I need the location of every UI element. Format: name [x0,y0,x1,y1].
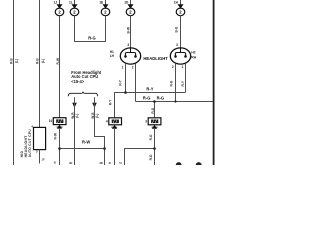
svg-text:3: 3 [145,119,147,123]
connector terminal T4 stub [130,0,132,5]
fuse B box [148,118,161,125]
junction dot R-Y / H1 pin1 [124,91,127,94]
svg-text:3I: 3I [54,160,57,164]
svg-text:RH: RH [191,55,196,59]
svg-text:R-G: R-G [170,80,174,86]
svg-text:(L): (L) [15,59,19,63]
connector terminal T3 circle 2 [101,8,110,16]
wire U-loop from T2 to T3 [75,15,106,41]
R-W bus horizontal [60,148,105,150]
junction dot R-G leg [153,100,156,103]
connector terminal T5 stub [180,0,182,5]
svg-text:R-B: R-B [36,58,40,64]
connector terminal T2 stub [74,0,76,5]
connector terminal T3 triangle [103,4,109,8]
wire below CPU box [39,150,41,164]
connector terminal T5 circle 2 [176,8,185,16]
svg-text:R-G: R-G [149,134,153,140]
svg-text:R-G: R-G [88,35,96,40]
svg-text:1D: 1D [124,0,129,4]
connector terminal T3 stub [105,0,107,5]
wire H2 pin2 down [175,64,177,102]
wire W9 brace right branch with jog [95,97,105,165]
bottom edge connector arc left [176,162,182,165]
connector terminal T1 stub [59,0,61,5]
R-G net horizontal to right border [136,101,214,103]
wire W8 brace left branch down [74,97,76,165]
svg-text:1: 1 [122,65,124,69]
branch from fuse B wire to left [125,149,155,166]
connector terminal T1 circle 2 [55,8,64,16]
svg-text:1H: 1H [174,0,179,4]
svg-text:B-G: B-G [175,26,179,32]
headlight H1 filament staple [125,53,135,57]
svg-text:R-Y: R-Y [146,87,153,92]
R-Y net horizontal with left leg to fuse A [115,93,186,118]
headlight H2 filament dot left [174,55,177,58]
svg-text:2: 2 [132,65,134,69]
headlight H2 filament dot right [184,55,187,58]
svg-text:R-Y: R-Y [181,80,185,86]
connector terminal T5 triangle [178,4,184,8]
svg-text:10: 10 [49,119,53,123]
svg-text:5I: 5I [119,161,122,165]
connector terminal T2 circle 2 [70,8,79,16]
wire H1 pin2 down [135,64,137,102]
wire W7 from T5 to headlight H2 [180,15,182,52]
wire below fuse A [114,128,116,165]
wire H2 pin1 down [185,64,187,93]
brace under From text [68,92,97,97]
svg-text:R-G: R-G [143,96,151,101]
svg-text:3: 3 [127,43,129,47]
svg-text:R-W: R-W [53,133,57,139]
svg-text:1E: 1E [99,0,103,4]
wire below fuse B [154,128,156,165]
connector terminal T4 triangle [128,4,134,8]
svg-text:4: 4 [106,119,108,123]
svg-text:(L): (L) [95,114,99,118]
junction dot R-G / H2 pin1 [174,100,176,102]
svg-text:R-Y: R-Y [109,99,113,105]
svg-text:HEADLIGHT: HEADLIGHT [143,56,168,61]
wire H1 pin1 down [125,64,127,93]
junction dot R-W right [103,147,106,150]
svg-text:3E: 3E [69,161,73,165]
svg-text:R-B: R-B [10,58,14,64]
R-G leg down to fuse B [154,102,156,118]
headlight H1 center feed [130,48,132,53]
headlight H2 bulb ellipse [170,48,190,64]
arrow from CPU left branch [72,103,77,108]
svg-text:(L): (L) [41,59,45,63]
svg-text:1F: 1F [42,158,46,162]
svg-text:R-W: R-W [56,58,60,64]
headlight H1 bulb ellipse [120,48,140,64]
bottom edge connector arc right [196,162,202,165]
svg-text:R-G: R-G [157,96,165,101]
junction dot R-W left [58,147,61,150]
wire W3 from T1 down to fuse 10 [59,15,61,118]
arrow from CPU right branch [92,103,97,108]
CPU box HID headlight auto cut [34,127,46,149]
svg-text:(L): (L) [75,114,79,118]
svg-text:AUTO CUT CPU: AUTO CUT CPU [28,129,32,158]
wire W6 from T4 to headlight H1 [130,15,132,52]
headlight H1 filament dot right [134,55,137,58]
headlight H2 filament staple [175,53,185,57]
svg-text:R-G: R-G [151,107,155,113]
fuse A arrow [112,125,117,129]
svg-text:B-W: B-W [126,27,130,33]
fuse B arrow [152,125,157,129]
svg-text:2: 2 [172,65,174,69]
junction dot branch [153,147,156,150]
fuse A box [109,118,122,125]
right border bus [213,0,215,165]
connector terminal T4 circle 2 [126,8,135,16]
wire W1 left vertical R-B [13,0,15,165]
svg-text:LH: LH [110,54,115,58]
svg-text:H2: H2 [191,51,195,55]
wire below fuse 10 [59,128,61,165]
fuse 10 box [53,118,66,125]
connector terminal T1 triangle [57,4,63,8]
svg-text:3I: 3I [109,161,112,165]
svg-text:R-Y: R-Y [119,79,123,85]
svg-text:3: 3 [176,43,178,47]
headlight H1 filament dot left [124,55,127,58]
connector terminal T2 triangle [72,4,78,8]
fuse 10 arrow [57,125,62,129]
svg-text:R-G: R-G [149,154,153,160]
svg-text:R-W: R-W [82,139,90,144]
wire W2 vertical to CPU box [39,0,41,127]
svg-text:1L: 1L [69,0,73,4]
headlight H2 center feed [180,48,182,53]
svg-text:1: 1 [182,65,184,69]
svg-text:<15-4>: <15-4> [71,79,85,84]
svg-text:3B: 3B [99,161,103,165]
svg-text:1J: 1J [54,0,58,4]
